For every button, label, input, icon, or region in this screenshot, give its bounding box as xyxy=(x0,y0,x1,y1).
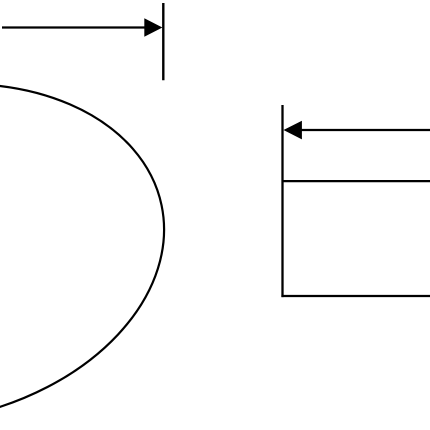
wire: right middle horizontal line xyxy=(283,180,430,182)
wire: right arrow shaft xyxy=(301,129,430,131)
node: large elliptical arc on left xyxy=(0,43,196,430)
wire: right bottom horizontal line xyxy=(281,295,430,297)
arrowhead pointing left at right side xyxy=(284,121,302,140)
wire: right-side vertical bar xyxy=(281,105,283,297)
arrowhead pointing right at top-left xyxy=(144,18,162,37)
wire: top-left horizontal arrow shaft xyxy=(2,26,146,28)
wire: short vertical bar at top-left xyxy=(162,3,164,80)
